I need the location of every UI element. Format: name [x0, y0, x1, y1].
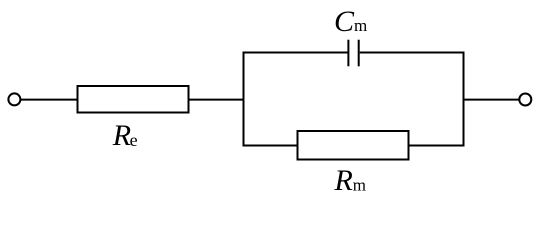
wire left vertical of parallel loop [243, 52, 245, 147]
svg-text:m: m [354, 16, 367, 35]
wire [189, 99, 245, 101]
wire bottom branch right [409, 145, 465, 147]
wire right vertical of parallel loop [463, 52, 465, 147]
wire top branch right [360, 52, 465, 54]
left terminal [8, 93, 20, 105]
wire [21, 99, 78, 101]
wire top branch left [243, 52, 348, 54]
right terminal [519, 94, 531, 106]
resistor Rm [298, 131, 409, 160]
resistor Re [78, 86, 189, 113]
svg-text:m: m [353, 176, 366, 195]
svg-text:e: e [130, 130, 138, 150]
wire output [464, 99, 520, 101]
capacitor Cm [347, 40, 349, 67]
svg-text:C: C [334, 5, 355, 38]
svg-text:R: R [112, 119, 131, 152]
svg-text:R: R [334, 164, 353, 197]
wire bottom branch left [243, 145, 298, 147]
